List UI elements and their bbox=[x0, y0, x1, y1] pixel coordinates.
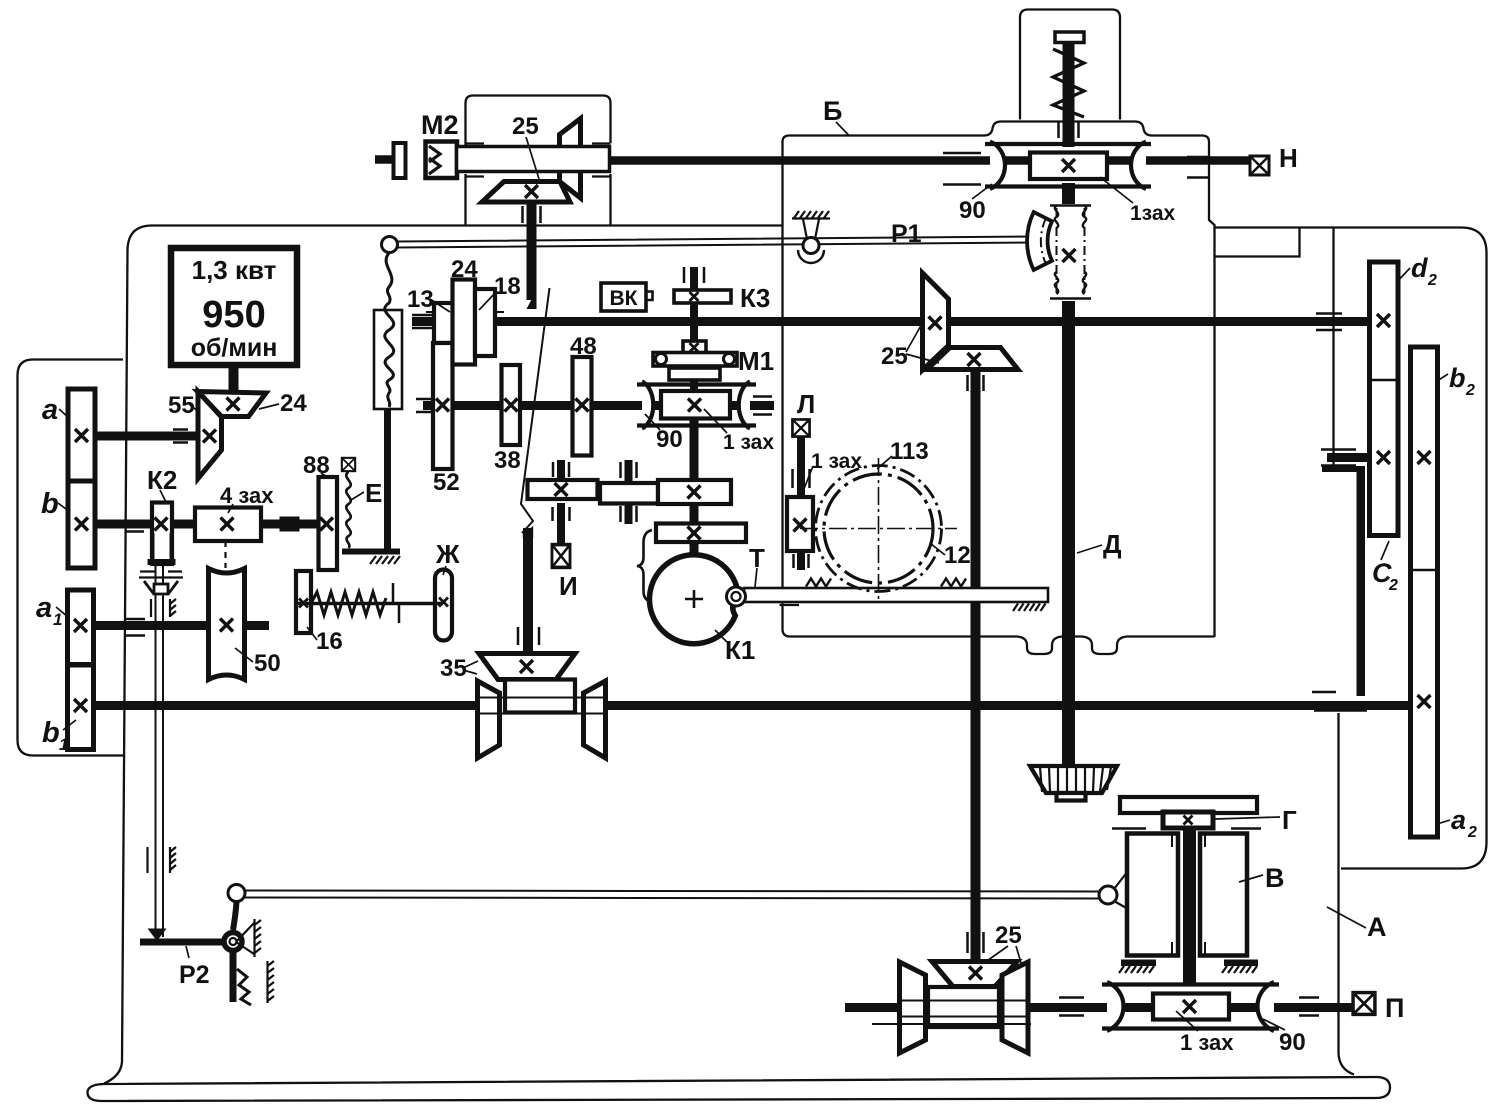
svg-text:1 зах: 1 зах bbox=[1180, 1030, 1234, 1055]
svg-text:Б: Б bbox=[823, 96, 842, 126]
svg-text:Е: Е bbox=[365, 478, 382, 508]
svg-text:d: d bbox=[1411, 253, 1428, 283]
svg-text:38: 38 bbox=[494, 447, 521, 474]
svg-text:Р1: Р1 bbox=[891, 220, 922, 248]
svg-text:2: 2 bbox=[1467, 824, 1477, 841]
svg-text:М1: М1 bbox=[738, 346, 774, 376]
svg-text:1,3 квт: 1,3 квт bbox=[192, 255, 277, 285]
svg-text:48: 48 bbox=[570, 333, 597, 360]
svg-text:35: 35 bbox=[440, 655, 467, 682]
svg-text:2: 2 bbox=[1465, 382, 1475, 399]
svg-text:88: 88 bbox=[303, 452, 330, 479]
svg-text:К3: К3 bbox=[740, 283, 770, 313]
svg-text:1 зах: 1 зах bbox=[811, 450, 862, 473]
svg-text:25: 25 bbox=[881, 343, 908, 370]
svg-text:24: 24 bbox=[280, 390, 307, 417]
svg-text:16: 16 bbox=[316, 628, 343, 655]
svg-text:1: 1 bbox=[59, 735, 68, 754]
svg-text:90: 90 bbox=[1279, 1029, 1306, 1056]
svg-text:a: a bbox=[36, 592, 52, 624]
svg-text:Р2: Р2 bbox=[179, 961, 210, 989]
svg-text:a: a bbox=[42, 394, 58, 426]
svg-text:113: 113 bbox=[890, 438, 929, 465]
svg-text:П: П bbox=[1385, 993, 1404, 1023]
svg-text:b: b bbox=[1449, 363, 1466, 393]
svg-text:b: b bbox=[42, 717, 60, 749]
svg-text:К1: К1 bbox=[725, 635, 755, 665]
svg-text:Ж: Ж bbox=[435, 539, 460, 569]
svg-text:24: 24 bbox=[451, 256, 478, 283]
svg-text:4 зах: 4 зах bbox=[220, 483, 274, 508]
svg-text:Н: Н bbox=[1279, 143, 1298, 173]
svg-text:К2: К2 bbox=[147, 465, 177, 495]
svg-text:1зах: 1зах bbox=[1130, 202, 1176, 225]
svg-text:ВК: ВК bbox=[610, 287, 638, 310]
svg-text:1: 1 bbox=[53, 610, 62, 629]
svg-text:Г: Г bbox=[1282, 805, 1297, 835]
svg-text:18: 18 bbox=[494, 273, 521, 300]
svg-text:И: И bbox=[559, 571, 578, 601]
svg-text:М2: М2 bbox=[421, 110, 459, 140]
svg-text:50: 50 bbox=[254, 650, 281, 677]
svg-text:2: 2 bbox=[1388, 577, 1398, 594]
svg-text:a: a bbox=[1451, 805, 1466, 835]
svg-text:90: 90 bbox=[959, 197, 986, 224]
svg-text:25: 25 bbox=[512, 113, 539, 140]
svg-text:Д: Д bbox=[1103, 529, 1122, 559]
svg-text:950: 950 bbox=[202, 294, 265, 336]
svg-text:b: b bbox=[41, 488, 59, 520]
svg-text:12: 12 bbox=[944, 542, 971, 569]
svg-text:Л: Л bbox=[797, 389, 815, 419]
svg-text:1 зах: 1 зах bbox=[723, 431, 774, 454]
svg-text:об/мин: об/мин bbox=[191, 334, 278, 362]
svg-text:52: 52 bbox=[433, 469, 460, 496]
svg-text:2: 2 bbox=[1427, 272, 1437, 289]
svg-text:В: В bbox=[1265, 863, 1285, 893]
svg-text:25: 25 bbox=[995, 922, 1022, 949]
svg-text:А: А bbox=[1367, 912, 1387, 942]
svg-text:90: 90 bbox=[656, 426, 683, 453]
